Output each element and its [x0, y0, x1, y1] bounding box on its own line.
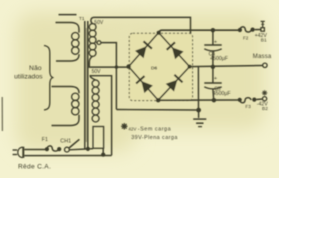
svg-text:Massa: Massa [253, 54, 272, 60]
svg-text:39V-Plena carga: 39V-Plena carga [131, 135, 178, 141]
svg-text:50V: 50V [94, 20, 104, 26]
svg-text:4500µF: 4500µF [210, 56, 228, 62]
svg-text:+: + [214, 40, 217, 46]
svg-text:Rêde C.A.: Rêde C.A. [18, 164, 51, 171]
svg-text:B2: B2 [262, 106, 268, 112]
svg-text:-Sem carga: -Sem carga [138, 127, 171, 133]
svg-text:F2: F2 [243, 36, 249, 41]
svg-text:B1: B1 [261, 38, 267, 44]
svg-text:F1: F1 [42, 137, 48, 143]
svg-text:Não: Não [29, 65, 42, 72]
svg-text:50V: 50V [92, 69, 102, 75]
svg-text:42V: 42V [128, 126, 136, 131]
svg-text:CH1: CH1 [60, 139, 71, 145]
svg-text:F3: F3 [245, 104, 251, 109]
svg-text:+: + [214, 76, 217, 82]
svg-text:4500µF: 4500µF [213, 91, 231, 97]
svg-text:T1: T1 [79, 16, 85, 22]
svg-text:D6: D6 [151, 65, 157, 71]
svg-text:utilizados: utilizados [14, 73, 43, 80]
